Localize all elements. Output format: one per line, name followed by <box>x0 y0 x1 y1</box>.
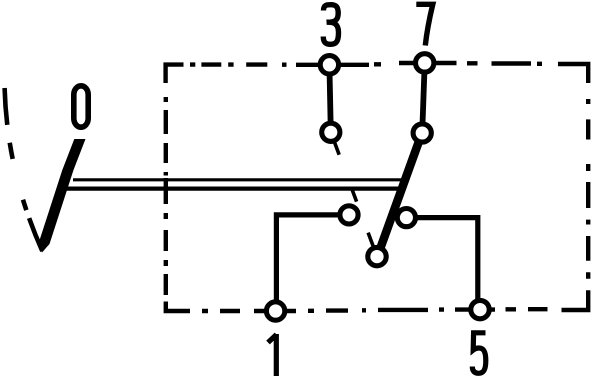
wire bracket from terminal 1 to mid-left contact <box>276 215 349 301</box>
terminal 5 <box>471 300 489 318</box>
wire stub at terminal 7 <box>399 61 457 65</box>
actuator lever 0 <box>38 139 85 253</box>
terminal 1 <box>266 302 284 320</box>
wire stub at terminal 5 <box>455 307 495 311</box>
pivot contact <box>368 247 386 265</box>
moving contact alternate position (dashed) <box>331 132 377 256</box>
fixed contact below terminal 7 <box>413 124 431 142</box>
housing outline top border (dash-dot) <box>166 63 589 83</box>
mid-left contact <box>340 206 358 224</box>
housing outline right border (dash-dot) <box>586 99 590 279</box>
wire from terminal 7 to fixed contact <box>422 63 425 133</box>
wire stub at terminal 1 <box>254 309 296 313</box>
lever travel arc (dashed) <box>5 88 43 251</box>
wire stub at terminal 3 <box>296 63 369 67</box>
mechanical linkage upper line <box>73 178 402 181</box>
label 1 <box>268 334 277 376</box>
moving contact arm <box>377 132 423 259</box>
housing outline bottom border (dash-dot) <box>166 290 588 311</box>
label 5 <box>472 333 486 374</box>
label 3 <box>323 5 338 45</box>
wire from terminal 3 to fixed contact <box>329 65 330 133</box>
housing outline left border (dash-dot) <box>164 97 168 295</box>
mid-right contact <box>397 209 415 227</box>
label 7 <box>416 4 433 45</box>
wire bracket from terminal 5 to mid-right contact <box>406 218 477 299</box>
mechanical linkage lower line <box>67 187 399 191</box>
terminal 3 <box>320 56 338 74</box>
fixed contact below terminal 3 <box>322 123 340 141</box>
terminal 7 <box>416 54 434 72</box>
label 0 <box>74 86 88 127</box>
